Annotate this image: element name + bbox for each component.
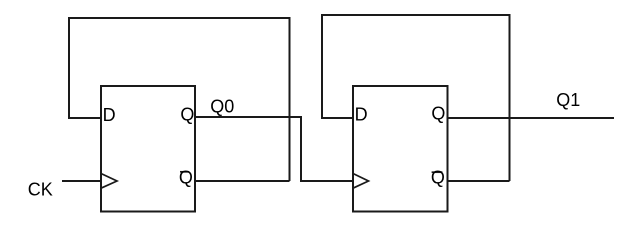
svg-text:Q: Q (431, 104, 445, 124)
svg-text:CK: CK (28, 180, 53, 200)
svg-text:Q: Q (180, 105, 194, 125)
svg-text:Q1: Q1 (556, 90, 580, 110)
svg-text:Q: Q (431, 168, 445, 188)
svg-text:Q: Q (179, 168, 193, 188)
svg-text:D: D (355, 105, 368, 125)
svg-text:D: D (103, 105, 116, 125)
svg-text:Q0: Q0 (210, 97, 234, 117)
